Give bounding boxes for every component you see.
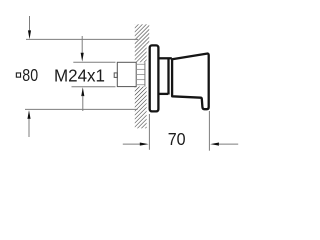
- dimension arrow (M24x1 bottom, pointing up): [81, 87, 84, 96]
- handle neck top: [158, 57, 171, 59]
- wall sleeve window lines: [136, 64, 145, 84]
- dimension arrow 70 left (pointing right): [123, 143, 141, 145]
- handle neck bottom: [158, 93, 168, 95]
- escutcheon plate (side view): [150, 45, 159, 111]
- extension line 70 right: [208, 111, 210, 151]
- extension line 70 left: [148, 114, 150, 150]
- extension line square80 top: [26, 38, 138, 40]
- dimension arrow (square80 bottom, pointing up): [27, 110, 30, 119]
- svg-text:80: 80: [22, 65, 38, 85]
- extension line M24x1 top: [73, 61, 115, 63]
- wall hatch lower band: [135, 113, 147, 129]
- wall hatch band above spindle: [135, 44, 147, 62]
- svg-text:M24x1: M24x1: [54, 65, 105, 85]
- wall hatch band below spindle: [135, 87, 147, 113]
- handle lever: [172, 54, 209, 110]
- extension line M24x1 bottom: [72, 86, 116, 88]
- dimension arrow (square80 top, pointing down): [29, 16, 31, 31]
- dimension arrow 70 right (pointing left): [210, 143, 219, 146]
- wall right face at sleeve: [144, 62, 146, 86]
- svg-text:70: 70: [168, 129, 186, 149]
- spindle square drive tab: [114, 73, 117, 78]
- wall hatch upper band: [135, 24, 149, 44]
- dimension arrow (M24x1 top, pointing down): [81, 36, 83, 54]
- handle neck end cap: [167, 58, 169, 94]
- valve spindle outline: [114, 62, 136, 86]
- label square-80 symbol: [16, 73, 20, 77]
- extension line square80 bottom: [25, 108, 138, 110]
